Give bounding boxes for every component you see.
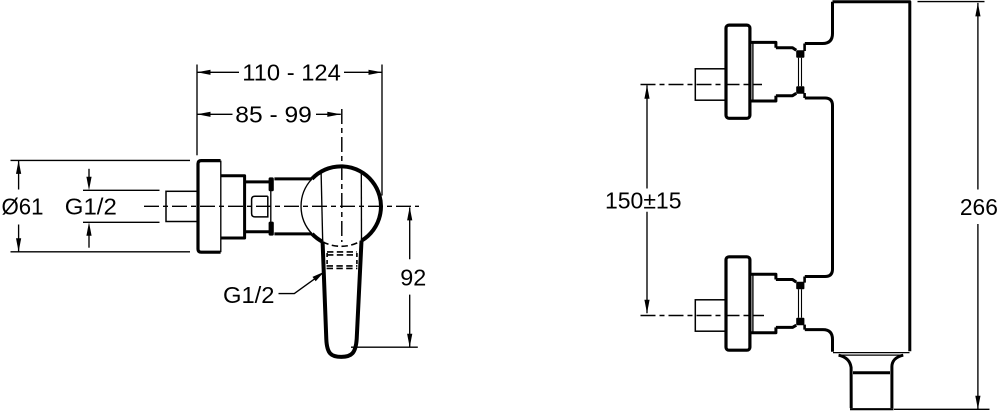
bottom union: nut upper square <box>796 282 804 290</box>
bottom union: nut cylinder <box>776 280 796 328</box>
top union: step cap <box>750 42 776 101</box>
main body left edge with top boss tab <box>805 2 833 44</box>
main body left edge between bosses <box>805 98 833 277</box>
leader arrowhead <box>313 272 325 282</box>
extension lines for dia 61 <box>11 160 191 251</box>
leader line for G1/2 handle connection <box>279 274 323 294</box>
dimension line 92 (broken by text) <box>409 208 411 348</box>
ball bottom-left thick arc <box>312 234 323 242</box>
extension lines G1/2 inlet <box>83 190 160 222</box>
ball housing thick outline <box>312 166 381 240</box>
top union: wall flange <box>726 25 750 118</box>
outlet top edge <box>853 371 890 374</box>
arrow right of dim 110-124 <box>369 70 383 75</box>
ring thin edge between bars <box>270 191 272 222</box>
bottom union: wall flange <box>726 257 750 350</box>
bottom union: nut thin lines <box>799 289 802 318</box>
wall flange escutcheon <box>198 161 221 253</box>
inlet pipe stub <box>166 191 198 221</box>
body tube bottom edge <box>274 232 312 235</box>
svg-text:92: 92 <box>400 265 426 291</box>
step cap behind flange <box>221 176 245 238</box>
outlet bottom edge <box>850 408 894 410</box>
svg-text:110 - 124: 110 - 124 <box>242 60 341 86</box>
handle lever outline <box>323 241 362 357</box>
bottom union: square-to-tab connectors <box>803 277 806 330</box>
handle right silhouette line <box>360 171 362 241</box>
svg-text:G1/2: G1/2 <box>65 193 117 219</box>
arrow left of dim 110-124 <box>197 70 211 75</box>
svg-text:85 - 99: 85 - 99 <box>235 102 311 128</box>
arrow up dia61 <box>16 160 21 174</box>
dimension line 266 (broken by text) <box>977 3 979 409</box>
arrow up at G1/2 inlet bottom <box>88 235 90 248</box>
top union: nut thin lines <box>799 58 802 86</box>
top pipe centerline <box>641 84 763 86</box>
ball hidden bottom arc (dashed) <box>323 241 362 247</box>
svg-text:G1/2: G1/2 <box>223 282 275 308</box>
bottom union: step left thin edge <box>752 274 754 333</box>
bottom union: nut lower square <box>796 318 804 326</box>
handle left silhouette line <box>321 172 323 242</box>
top union: nut upper square <box>796 50 804 58</box>
hidden thread side dashes <box>327 253 357 267</box>
arrow left of dim 85-99 <box>197 112 211 117</box>
retaining ring top bar <box>269 177 274 191</box>
sleeve section <box>245 182 269 232</box>
main body left edge below bottom boss <box>805 330 833 352</box>
bottom union: pipe stub <box>695 300 726 331</box>
arrow right of dim 85-99 <box>327 112 341 117</box>
arrow down dim 150 <box>644 300 649 314</box>
extension line right (x382) for dim 110-124 <box>381 65 383 196</box>
arrow up dim 92 <box>407 207 412 221</box>
svg-text:150±15: 150±15 <box>605 187 682 213</box>
retaining ring bottom bar <box>269 222 274 236</box>
arrow down dim 266 <box>975 396 980 410</box>
top union: square-to-tab connectors <box>803 44 806 99</box>
top union: pipe stub <box>695 69 726 100</box>
horizontal centerline <box>144 205 419 207</box>
svg-text:Ø61: Ø61 <box>2 193 44 219</box>
bottom pipe centerline <box>641 315 765 317</box>
outlet trumpet left curve and left edge <box>839 355 852 408</box>
svg-text:266: 266 <box>960 194 998 220</box>
vertical centerline of ball <box>341 109 343 242</box>
top union: nut lower square <box>796 86 804 94</box>
bottom union: step cap <box>750 274 776 333</box>
arrow down dim 92 <box>407 334 412 348</box>
arrow up dim 150 <box>644 85 649 99</box>
arrow down dia61 <box>16 238 21 252</box>
dimension line dia61 (broken by text) <box>18 160 20 251</box>
bottom ext line for dim 266 <box>894 408 990 410</box>
top union: nut cylinder <box>776 48 796 96</box>
extension line for dim 92 bottom <box>351 346 418 348</box>
body bottom thin joint lines <box>833 353 910 356</box>
flange right edge (thin) <box>220 161 222 253</box>
cartridge nut <box>252 196 268 217</box>
hidden thread dashes on handle neck <box>327 252 358 269</box>
top ext line for dim 266 <box>918 1 985 3</box>
arrow up dim 266 <box>975 3 980 17</box>
extension line left (x197) for dims 110-124 / 85-99 <box>196 65 198 156</box>
dimension line 110-124 <box>197 71 382 73</box>
body tube top edge <box>274 177 312 180</box>
top union: step left thin edge <box>752 42 754 101</box>
main body top and right edges <box>833 2 910 352</box>
dimension line 85-99 <box>197 113 341 115</box>
outlet trumpet right curve and right edge <box>892 355 903 408</box>
ball left thin arc <box>301 179 312 234</box>
dimension line 150+-15 (broken by text) <box>646 85 648 313</box>
arrow down at G1/2 inlet top <box>88 169 90 178</box>
